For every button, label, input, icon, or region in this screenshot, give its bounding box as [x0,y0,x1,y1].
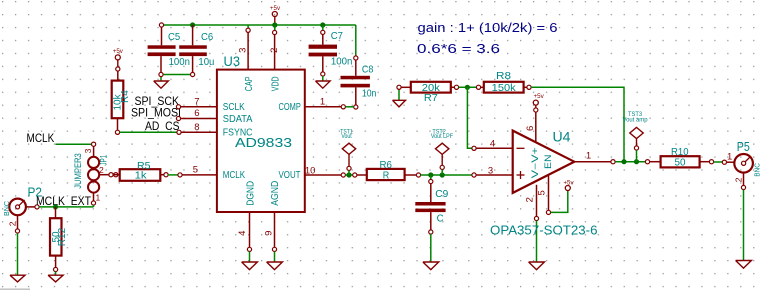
capacitor C5 [148,23,190,77]
label AD_CS [145,119,180,133]
pin 3 CAP [238,25,251,70]
svg-text:+5v: +5v [563,180,574,187]
wire +5V top rail [162,25,356,57]
svg-text:10: 10 [305,165,316,176]
wire P2 ground [17,233,19,275]
wire R5 to MCLK pin [168,174,178,176]
svg-text:SCLK: SCLK [223,102,245,113]
svg-text:C6: C6 [201,31,213,43]
ground P2 [10,275,25,282]
svg-text:3: 3 [83,148,93,153]
pin 7 SCLK [176,97,217,109]
junction top rail at C7 [320,22,325,27]
pin 4 DGND [237,212,257,270]
junction MCLK_EXT at R12 [53,204,58,209]
svg-text:C8: C8 [362,63,374,75]
pin 6 SDATA [176,108,217,120]
svg-text:100n: 100n [169,56,190,68]
svg-text:DGND: DGND [245,181,256,206]
ground below C7 [316,76,331,88]
junction top rail at C6 [190,22,195,27]
svg-text:1: 1 [320,97,325,108]
wire C5-C6 bottom [161,74,193,76]
pin 1 COMP [305,97,346,109]
wire R7 to R8 [459,86,477,88]
pin 2 V- ground [525,185,539,262]
svg-text:R8: R8 [496,70,511,82]
resistor R8 150k [476,70,531,94]
connector P5 BNC [722,140,761,190]
ground U4 [529,262,545,270]
svg-text:R: R [383,170,390,181]
svg-text:BNC: BNC [2,200,11,216]
svg-text:CAP: CAP [244,76,255,91]
svg-text:+5v: +5v [113,48,124,55]
svg-text:+5v: +5v [534,93,545,100]
svg-text:0.6*6 = 3.6: 0.6*6 = 3.6 [417,41,500,56]
junction feedback [465,85,470,90]
wire AD_CS [120,131,178,133]
svg-text:1: 1 [96,193,101,203]
svg-text:7: 7 [194,97,199,108]
testpoint TST2 [431,128,453,175]
svg-text:MCLK_EXT: MCLK_EXT [36,194,92,208]
ground below C5 [154,77,169,89]
junction TST1 [346,172,351,177]
svg-text:3: 3 [488,166,493,177]
capacitor C8 [341,56,377,109]
svg-text:50: 50 [675,157,686,169]
wire MCLK_EXT [39,205,93,207]
wire VOUT to R6 [345,174,353,176]
svg-text:V−V+: V−V+ [530,147,540,178]
ground R7 [393,89,406,107]
svg-text:4: 4 [490,139,495,150]
pin 10 VOUT [305,165,346,177]
wire C9 ground [430,234,432,262]
wire EN to +5V [551,191,568,213]
svg-text:VDD: VDD [270,77,281,92]
svg-text:1: 1 [586,151,591,162]
svg-text:100n: 100n [331,56,353,68]
junction C9 [428,172,433,177]
label MCLK [27,131,55,145]
svg-text:JP1: JP1 [99,155,109,166]
pin 2 VDD [269,25,280,70]
svg-text:MCLK: MCLK [223,170,246,181]
svg-text:5: 5 [193,164,198,175]
svg-text:SDATA: SDATA [223,114,253,125]
svg-text:2: 2 [734,177,744,182]
svg-text:OPA357-SOT23-6: OPA357-SOT23-6 [490,222,598,237]
svg-text:C5: C5 [168,31,180,43]
ground C9 [423,262,439,270]
resistor R6 R [353,160,421,182]
wire output [615,161,645,163]
svg-text:FSYNC: FSYNC [223,128,253,139]
testpoint TST3 [623,111,649,162]
svg-text:+5v: +5v [270,5,281,12]
resistor R5 1k [113,160,168,182]
svg-text:9: 9 [264,231,275,236]
+5V symbol top [270,5,281,25]
wire R6 to op-amp [421,174,474,176]
svg-text:BNC: BNC [753,163,761,177]
svg-text:10u: 10u [198,56,214,68]
svg-text:gain : 1+ (10k/2k) = 6: gain : 1+ (10k/2k) = 6 [418,20,558,35]
svg-text:SPI_MOSI: SPI_MOSI [131,105,181,119]
svg-text:10n: 10n [362,88,377,100]
ground P5 [736,261,752,269]
svg-text:2: 2 [269,48,280,53]
resistor R7 20k [397,82,459,104]
junction TST2 [440,172,445,177]
resistor R10 50 [645,146,713,169]
svg-text:C: C [437,213,444,225]
+5V symbol EN [563,180,574,191]
note gain formula [418,20,558,35]
pin 4 inverting [472,139,513,151]
op-amp U4 body [513,130,575,193]
svg-text:8: 8 [194,122,199,133]
connector P2 BNC [2,185,42,233]
svg-text:R6: R6 [380,160,393,171]
svg-text:5: 5 [537,190,548,195]
pin 5 EN [537,176,551,215]
note result [417,41,500,56]
label SPI_MOSI [131,105,181,119]
wire feedback to pin4 [467,87,472,148]
label MCLK_EXT [36,194,92,208]
jumper JP1 [73,142,113,205]
svg-text:2: 2 [7,221,17,226]
svg-text:Vout amp: Vout amp [623,118,649,124]
junction top rail at +5V/VDD [272,22,277,27]
svg-text:6: 6 [194,108,199,119]
ground R12 [48,275,63,282]
svg-text:150k: 150k [492,82,517,94]
pin 6 V+ supply [525,93,545,143]
svg-text:C9: C9 [435,188,448,200]
svg-text:C7: C7 [331,30,343,42]
pin 8 FSYNC [177,122,217,135]
svg-text:AD_CS: AD_CS [145,119,180,133]
svg-text:3: 3 [238,48,249,53]
wire R10 to P5 [714,161,723,163]
svg-text:1: 1 [727,152,732,163]
capacitor C9 [415,175,448,234]
svg-text:Vout: Vout [341,134,352,140]
pin 1 output [574,151,615,164]
wire R8 to output [531,87,624,161]
capacitor C6 [179,25,214,77]
label SPI_SCK [135,94,180,108]
svg-text:P5: P5 [737,140,750,154]
svg-text:VOUT: VOUT [279,170,301,181]
svg-text:6: 6 [525,126,536,131]
junction TST3 [634,159,639,164]
svg-text:EN: EN [543,155,553,170]
svg-text:1k: 1k [135,170,148,182]
resistor R12 50 [50,207,68,275]
svg-text:R7: R7 [424,92,438,104]
resistor R4 10k [112,48,132,134]
svg-text:R4: R4 [120,90,131,103]
pin 9 AGND [264,212,283,270]
wire P5 ground [743,190,745,261]
svg-text:Vout LPF: Vout LPF [431,134,453,140]
svg-text:AGND: AGND [270,181,281,206]
svg-text:MCLK: MCLK [27,131,55,145]
pin 3 noninverting [472,166,513,177]
svg-text:U3: U3 [224,54,241,69]
capacitor C7 [309,25,353,76]
svg-text:R12: R12 [57,227,68,246]
wire MCLK [56,143,92,145]
svg-text:2: 2 [525,197,536,202]
svg-text:4: 4 [237,231,248,236]
pin 5 MCLK [178,164,217,177]
svg-text:COMP: COMP [279,102,302,113]
wire COMP to C8 [345,106,353,108]
testpoint TST1 [340,128,355,175]
IC U3 AD9833 body [217,54,305,212]
svg-text:U4: U4 [553,130,572,145]
value OPA357-SOT23-6 [490,222,598,237]
junction feedback output [621,159,626,164]
svg-text:JUMPER3: JUMPER3 [73,153,84,189]
